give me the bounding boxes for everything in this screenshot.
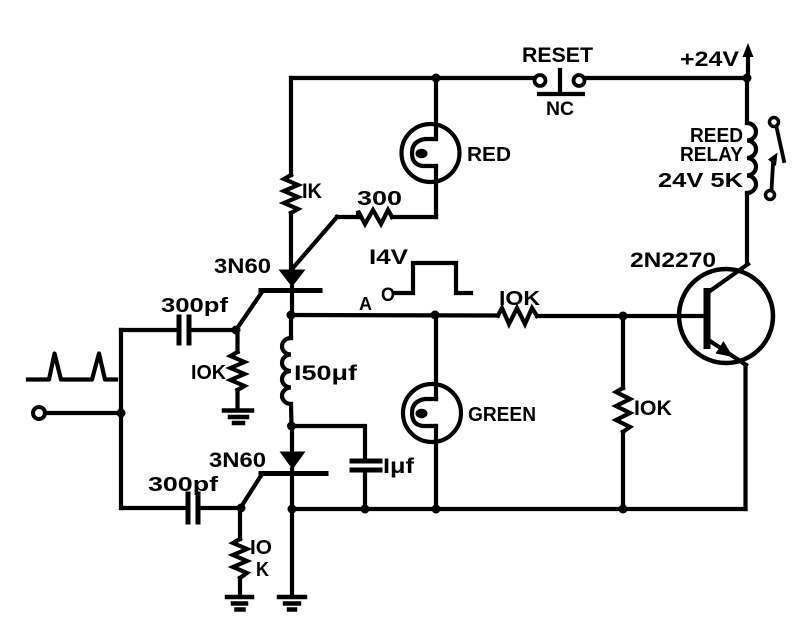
- svg-text:A: A: [359, 294, 372, 314]
- wire R3 to ground: [235, 390, 239, 409]
- resistor R5 10K horizontal: [498, 308, 537, 324]
- wire emitter down to bottom rail: [743, 365, 747, 509]
- svg-text:K: K: [256, 559, 269, 581]
- SCR Q1 3N60 upper: [261, 270, 320, 316]
- wire C1 to gate junction: [191, 328, 236, 332]
- wire gate of Q1 to node junction: [236, 292, 262, 330]
- wire left vertical from top rail to R1: [289, 78, 293, 175]
- svg-text:Iμf: Iμf: [383, 455, 415, 478]
- wire gate node to R4: [238, 508, 242, 539]
- ground below R4: [227, 597, 252, 610]
- wire RED lamp top drop: [434, 78, 438, 139]
- svg-text:IO: IO: [250, 537, 272, 559]
- wire GREEN lamp top drop: [434, 315, 438, 399]
- wire upper branch to C1: [121, 328, 177, 332]
- junction dot green lamp top: [431, 311, 440, 320]
- resistor R6 10K pulldown: [616, 388, 630, 432]
- wire top rail left segment: [291, 76, 534, 80]
- wire gate node to R3: [235, 330, 239, 352]
- ground below R3: [224, 411, 252, 424]
- resistor R3 10K: [231, 352, 245, 390]
- reed switch contact of K1: [766, 118, 785, 200]
- node A junction dot on Q1 cathode line: [287, 311, 296, 320]
- svg-text:+24V: +24V: [680, 48, 739, 71]
- wire C2 to gate junction: [200, 506, 241, 510]
- svg-text:RESET: RESET: [522, 44, 593, 67]
- svg-text:NC: NC: [546, 99, 574, 120]
- resistor R1 1K: [284, 175, 298, 213]
- svg-text:GREEN: GREEN: [468, 404, 536, 426]
- svg-text:RELAY: RELAY: [680, 144, 744, 166]
- resistor R4 10K lower: [233, 539, 247, 578]
- svg-text:IK: IK: [302, 180, 322, 203]
- svg-text:300: 300: [357, 188, 402, 210]
- resistor R2 300: [358, 210, 392, 224]
- power +24V arrow: [743, 43, 754, 78]
- junction dot Q2 gate node: [237, 504, 246, 513]
- wire GREEN lamp bottom drop: [434, 426, 438, 509]
- junction dot C3 bottom: [287, 422, 296, 431]
- svg-text:RED: RED: [467, 144, 511, 166]
- wire 150uf top stub: [289, 315, 293, 338]
- wire bottom rail: [292, 507, 746, 511]
- svg-text:I4V: I4V: [369, 246, 408, 269]
- wire R4 to ground: [238, 578, 242, 595]
- svg-text:24V 5K: 24V 5K: [658, 170, 744, 192]
- switch S1 RESET pushbutton NC: [535, 70, 585, 94]
- wire Q2 anode stub: [290, 426, 294, 453]
- junction dot base node: [619, 312, 628, 321]
- wire coil bottom to collector: [745, 193, 749, 264]
- svg-text:3N60: 3N60: [209, 449, 266, 472]
- wire node B to transistor base: [537, 314, 705, 318]
- wire 150uf bottom to junction: [289, 404, 294, 426]
- waveform input pulses annotation: [28, 354, 116, 380]
- svg-text:O: O: [381, 285, 395, 306]
- junction dot top rail RED branch: [432, 74, 441, 83]
- wire junction to C4: [292, 426, 366, 461]
- relay K1 coil REED RELAY 24V 5K: [747, 123, 756, 193]
- ground below Q2: [279, 597, 305, 610]
- wire R6 bottom to rail: [621, 432, 625, 509]
- junction dot input split: [117, 409, 126, 418]
- svg-text:IOK: IOK: [499, 288, 541, 310]
- svg-text:2N2270: 2N2270: [630, 249, 716, 272]
- lamp DS1 RED: [402, 124, 460, 182]
- wire RED lamp bottom drop: [434, 166, 438, 217]
- capacitor C4 1uf: [352, 461, 380, 470]
- junction dot C4 bottom: [361, 505, 370, 514]
- wire Q2 cathode to ground: [290, 509, 294, 595]
- wire C4 bottom to rail: [363, 470, 367, 509]
- capacitor C2 300pf lower: [188, 494, 198, 522]
- svg-text:300pf: 300pf: [148, 474, 218, 496]
- capacitor C3 150uf: [282, 338, 291, 404]
- svg-text:I50μf: I50μf: [294, 362, 358, 385]
- SCR Q2 3N60 lower: [261, 452, 326, 510]
- svg-text:IOK: IOK: [191, 362, 227, 384]
- wire diagonal from R2 to Q1 anode: [292, 217, 337, 269]
- wire input vertical branch: [119, 330, 123, 508]
- junction dot R6 bottom: [619, 505, 628, 514]
- wire R2 left to diagonal: [337, 215, 358, 219]
- svg-text:3N60: 3N60: [214, 255, 271, 278]
- input terminal: [33, 407, 45, 419]
- junction dot Q1 gate node: [232, 326, 241, 335]
- svg-text:IOK: IOK: [634, 397, 672, 420]
- wire input to junction: [45, 411, 121, 415]
- wire lamp bottom to R2: [392, 215, 436, 219]
- lamp DS2 GREEN: [403, 384, 461, 442]
- transistor Q3 2N2270: [679, 264, 773, 365]
- wire node A horizontal left segment: [291, 313, 498, 318]
- wire top rail right segment: [585, 76, 743, 80]
- wire gate of Q2 to junction: [241, 474, 262, 507]
- junction dot green lamp bottom: [432, 505, 441, 514]
- svg-text:300pf: 300pf: [161, 295, 228, 317]
- junction dot Q2 cathode rail: [288, 505, 297, 514]
- capacitor C1 300pf upper: [179, 317, 189, 343]
- wire +24V node to relay coil: [745, 78, 749, 123]
- wire base node to R6: [621, 316, 625, 388]
- junction dot top rail right at +24V: [743, 74, 752, 83]
- wire R1 bottom to SCR Q1 anode: [289, 213, 293, 271]
- waveform 14V pulse annotation: [396, 263, 471, 293]
- wire lower branch to C2: [121, 506, 186, 510]
